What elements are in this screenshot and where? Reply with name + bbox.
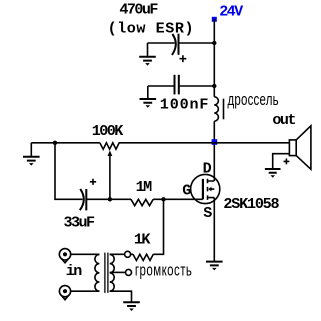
input jack J2 bottom	[59, 286, 70, 300]
wire 470uF left lead	[148, 43, 175, 56]
label дроссель	[228, 91, 279, 110]
label in	[66, 262, 82, 280]
svg-text:2SK1058: 2SK1058	[223, 195, 279, 213]
ground G6 (speaker)	[265, 169, 281, 178]
wire 100nF left lead	[148, 86, 175, 99]
svg-text:дроссель: дроссель	[228, 91, 279, 110]
label 1M	[136, 178, 152, 196]
svg-text:in: in	[66, 262, 82, 280]
wire top rail left	[31, 142, 100, 144]
junction dot 100nF-bus	[212, 84, 216, 88]
label out	[272, 111, 295, 129]
transformer T1 secondary winding	[110, 254, 115, 291]
transformer T1 primary winding	[95, 254, 100, 291]
wire 100nF right lead	[179, 85, 215, 87]
potentiometer R1 wiper arrow	[108, 150, 113, 199]
node 24V terminal square	[212, 17, 217, 22]
resistor R2 1M	[131, 199, 153, 205]
wire 33uF to 1M	[86, 198, 131, 200]
label S	[203, 204, 212, 222]
svg-text:100nF: 100nF	[160, 96, 210, 114]
label D	[203, 160, 212, 178]
wire main vertical bus from 24V to inductor	[213, 19, 215, 97]
svg-text:470uF: 470uF	[119, 0, 158, 18]
node blue junction square	[212, 139, 218, 145]
inductor L1 (choke)	[214, 97, 223, 121]
wire jack bottom to transformer	[71, 290, 100, 292]
label G	[182, 181, 191, 199]
input jack J1 top	[59, 249, 70, 263]
svg-text:(low ESR): (low ESR)	[108, 19, 194, 37]
terminal circle 1K top	[125, 251, 131, 257]
plus sign of 470uF	[180, 55, 187, 62]
transistor Q1 2SK1058	[191, 174, 220, 203]
transformer T1 core	[105, 253, 108, 293]
junction dot 470uF-bus	[212, 41, 216, 45]
wire tap to circle	[110, 271, 126, 273]
wire MOSFET source down	[213, 198, 215, 262]
label (low ESR)	[108, 19, 194, 37]
junction dot wiper-gate	[108, 197, 112, 201]
wire speaker return	[273, 154, 290, 169]
label 33uF	[64, 213, 95, 231]
wire secondary bottom to ground	[110, 291, 132, 302]
label 2SK1058	[223, 195, 279, 213]
node 24V supply label	[219, 3, 244, 21]
plus sign of speaker	[284, 159, 290, 165]
speaker SP1	[289, 126, 311, 170]
label 1K	[134, 230, 151, 248]
wire 470uF right lead	[179, 42, 215, 44]
label 100K	[92, 122, 124, 140]
ground G1 (470uF)	[139, 57, 156, 66]
wire secondary top to 1K circle	[110, 253, 133, 255]
svg-text:1M: 1M	[136, 178, 152, 196]
wire 1M to gate	[153, 198, 203, 200]
capacitor C1 470uF	[172, 34, 179, 55]
wire bus inductor to MOSFET drain	[213, 121, 215, 181]
label 470uF	[119, 0, 158, 18]
label громкость	[135, 261, 192, 280]
capacitor C3 33uF	[80, 189, 87, 211]
junction dot left branch	[53, 141, 57, 145]
capacitor C2 100nF	[175, 75, 179, 95]
terminal circle volume tap	[126, 269, 132, 275]
junction dot 1K riser	[161, 197, 165, 201]
wire jack top to transformer	[71, 253, 100, 255]
ground G5 (transformer)	[123, 302, 140, 311]
svg-text:out: out	[272, 111, 295, 129]
svg-text:33uF: 33uF	[64, 213, 95, 231]
wire top rail right	[120, 142, 289, 144]
label 100nF	[160, 96, 210, 114]
ground G2 (100nF)	[140, 99, 157, 108]
svg-text:24V: 24V	[219, 3, 244, 21]
resistor R3 1K	[133, 254, 153, 260]
svg-text:100K: 100K	[92, 122, 124, 140]
ground G3 (left end of top wire)	[23, 143, 40, 166]
svg-text:громкость: громкость	[135, 261, 192, 280]
svg-text:1K: 1K	[134, 230, 151, 248]
wire left branch down	[55, 143, 83, 200]
wire 1K riser	[153, 199, 163, 254]
plus sign of 33uF	[90, 179, 96, 185]
potentiometer R1 100K zigzag	[100, 143, 120, 149]
ground G4 (source)	[206, 262, 223, 271]
